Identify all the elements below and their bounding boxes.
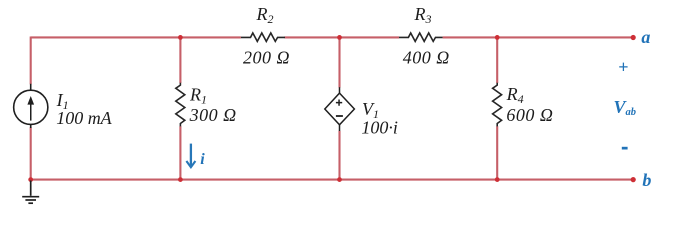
svg-text:a: a [641, 27, 650, 47]
svg-text:i: i [200, 151, 205, 168]
svg-text:100·i: 100·i [361, 117, 398, 137]
svg-text:300 Ω: 300 Ω [189, 105, 237, 125]
svg-text:600 Ω: 600 Ω [506, 105, 553, 125]
svg-text:200 Ω: 200 Ω [243, 47, 290, 67]
svg-text:+: + [618, 57, 628, 77]
svg-text:100 mA: 100 mA [56, 108, 112, 128]
svg-text:400 Ω: 400 Ω [403, 47, 450, 67]
svg-text:b: b [642, 170, 651, 190]
